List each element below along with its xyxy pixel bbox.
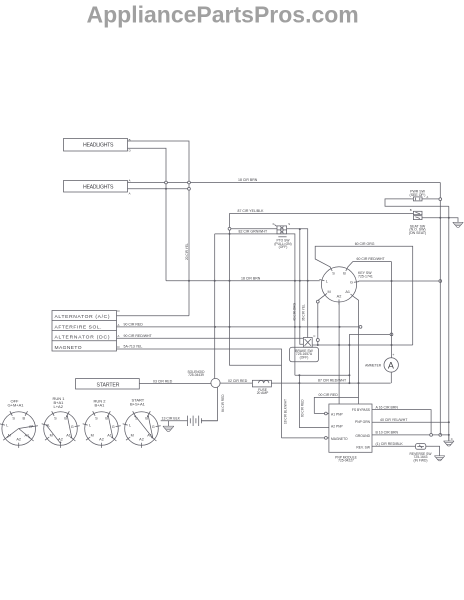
svg-text:C: C [313, 334, 315, 338]
wire headlight2 bottom [128, 188, 190, 190]
svg-text:725-04439: 725-04439 [188, 373, 204, 377]
wire reverse switch to ground [426, 446, 440, 456]
svg-text:L: L [48, 424, 50, 428]
battery [187, 416, 189, 426]
svg-text:A1: A1 [66, 433, 71, 437]
wire 60 CIR RED/WHT key B terminal to ammeter branch [348, 262, 392, 267]
wire brake bypass loop [295, 374, 350, 376]
svg-text:C: C [451, 437, 453, 441]
ground right of module [448, 435, 450, 441]
wire 02 CIR RED solenoid to fuse [220, 382, 253, 384]
svg-text:40 CIR YEL/WHT: 40 CIR YEL/WHT [380, 418, 408, 422]
svg-text:A: A [118, 334, 120, 338]
svg-text:S: S [332, 272, 335, 276]
wire PTO right to brake top [287, 229, 308, 338]
wire 60 CIR RED vertical to module A2 [299, 375, 329, 427]
wire ammeter bottom [390, 372, 392, 383]
svg-text:A: A [427, 195, 429, 199]
wire key M terminal to brake switch [318, 296, 323, 300]
svg-text:HEADLIGHTS: HEADLIGHTS [83, 142, 114, 148]
svg-text:18 CIR BRN: 18 CIR BRN [238, 178, 258, 182]
engine component stack box [52, 311, 117, 352]
module magneto terminal [325, 437, 328, 440]
headlight 2 box [64, 181, 128, 193]
wire key A2 terminal down to module top [338, 302, 340, 404]
solenoid circle [211, 378, 220, 387]
wire 40 CIR YEL/WHT module PNP GRN [372, 421, 449, 423]
svg-text:A: A [129, 179, 131, 183]
svg-text:MAGNETO: MAGNETO [55, 345, 82, 351]
wire key A1 terminal down to 87 red/wht [354, 297, 358, 397]
wire headlight1 B to vertical x189 [128, 141, 190, 316]
svg-text:725-04227: 725-04227 [338, 459, 354, 463]
svg-text:725-1741: 725-1741 [358, 275, 373, 279]
svg-text:G+M+A1: G+M+A1 [8, 402, 25, 407]
starter box [76, 379, 140, 389]
svg-text:(OFF): (OFF) [300, 356, 309, 360]
svg-text:AFTERFIRE SOL.: AFTERFIRE SOL. [55, 324, 102, 330]
PNP module box [329, 404, 372, 452]
svg-text:60 CIR ORG: 60 CIR ORG [355, 242, 375, 246]
svg-text:36 CIR YEL: 36 CIR YEL [301, 304, 305, 321]
svg-text:A2: A2 [139, 438, 144, 442]
svg-text:B: B [343, 272, 346, 276]
svg-text:G: G [350, 281, 353, 285]
wire 16 CIR BRN module FS bypass [372, 410, 431, 435]
reverse switch [416, 444, 426, 450]
svg-text:PNP GRN: PNP GRN [355, 420, 371, 424]
svg-text:D: D [118, 345, 120, 349]
wire headlight1 D to vertical x166 [128, 148, 167, 280]
svg-text:REV. SW: REV. SW [356, 445, 371, 449]
svg-text:M: M [328, 290, 331, 294]
svg-text:AppliancePartsPros.com: AppliancePartsPros.com [87, 2, 359, 28]
PTO switch [277, 226, 287, 234]
svg-text:60 CIR RED: 60 CIR RED [301, 399, 305, 417]
svg-text:M: M [91, 434, 94, 438]
svg-text:5A-713 YEL: 5A-713 YEL [124, 345, 143, 349]
wire REV SW module [372, 445, 416, 447]
svg-text:00 CIR RED: 00 CIR RED [319, 393, 339, 397]
svg-text:A2 PNP: A2 PNP [331, 425, 344, 429]
svg-text:87 CIR RED/WHT: 87 CIR RED/WHT [318, 379, 347, 383]
wire lower kill run under PTO [215, 234, 295, 375]
svg-text:(1) CIR RED/BLK: (1) CIR RED/BLK [376, 442, 404, 446]
junction dot x166 brn wire [188, 280, 190, 282]
wire seat switch lower to ground [422, 218, 458, 223]
wire interlock rail y345 [312, 344, 413, 346]
svg-text:A2: A2 [337, 294, 342, 298]
82 CIR GRN/WHT wire with connector bullet [228, 227, 231, 230]
svg-text:87 CIR YEL/BLK: 87 CIR YEL/BLK [238, 209, 265, 213]
svg-text:A: A [118, 323, 120, 327]
svg-text:B+S+A1: B+S+A1 [130, 401, 146, 406]
wire key G terminal to right ground bus [359, 280, 441, 282]
ground battery [167, 421, 169, 426]
svg-text:02 CIR RED: 02 CIR RED [228, 379, 248, 383]
wire 36 CIR YEL vertical [300, 229, 304, 344]
module A1 terminal [325, 412, 328, 415]
wire 87 CIR YEL/BLK to seat switch [230, 212, 414, 214]
wire 03 CIR RED starter to solenoid [139, 383, 211, 385]
svg-text:03 CIR RED: 03 CIR RED [153, 379, 173, 383]
wire 13 CIR BLK battery negative [161, 420, 188, 422]
svg-text:L: L [326, 280, 328, 284]
wire 18 CIR BRN to key L terminal [166, 280, 320, 282]
svg-text:L+A2: L+A2 [54, 404, 64, 409]
svg-text:+: + [392, 353, 394, 357]
svg-text:60 CIR RED/WHT: 60 CIR RED/WHT [357, 257, 386, 261]
svg-text:L: L [89, 424, 91, 428]
wire vertical x349 [348, 334, 350, 383]
wire 10 CIR BRN module ground [372, 434, 449, 436]
svg-text:(IN FWD): (IN FWD) [414, 458, 428, 462]
wire ammeter top [391, 262, 393, 358]
svg-text:90 CIR RED: 90 CIR RED [124, 323, 144, 327]
connector circles on headlight wires [165, 181, 168, 184]
svg-text:F: F [273, 222, 275, 226]
svg-text:A: A [388, 360, 394, 370]
svg-text:A1: A1 [107, 433, 112, 437]
svg-text:(SEE OP.): (SEE OP.) [410, 193, 426, 197]
svg-text:18 CIR BRN: 18 CIR BRN [241, 276, 261, 280]
wire 60 CIR ORG key S terminal loop [315, 246, 413, 345]
wire alternator AC 20 CIR YEL [117, 315, 190, 317]
svg-text:M: M [50, 434, 53, 438]
svg-text:HEADLIGHTS: HEADLIGHTS [83, 185, 114, 191]
wire solenoid top riser [214, 234, 216, 379]
wire solenoid bottom to battery [201, 387, 217, 421]
wire magneto 5A-713 YEL [117, 349, 282, 438]
svg-text:S: S [95, 417, 98, 421]
svg-text:FS BYPASS: FS BYPASS [352, 408, 371, 412]
key switch circle [321, 267, 356, 302]
wire 87 CIR RED/WHT fuse to ammeter [271, 382, 390, 384]
svg-text:A2: A2 [99, 438, 104, 442]
svg-text:(OFF): (OFF) [279, 245, 288, 249]
svg-text:20 AMP: 20 AMP [257, 391, 269, 395]
brake switch [303, 338, 312, 348]
svg-text:S: S [288, 222, 290, 226]
ammeter circle [384, 358, 398, 372]
svg-text:A1 PNP: A1 PNP [331, 413, 344, 417]
wire PWR switch to bus [426, 198, 439, 200]
svg-text:AMMETER: AMMETER [365, 363, 382, 367]
svg-text:B+A1: B+A1 [95, 402, 106, 407]
wire alternator DC 90 CIR RED/WHT [117, 337, 304, 339]
svg-text:G: G [71, 425, 74, 429]
svg-text:A 16 CIR BRN: A 16 CIR BRN [376, 405, 399, 409]
svg-text:MAGNETO: MAGNETO [331, 437, 348, 441]
ground bus vertical right x440 [439, 183, 441, 435]
svg-text:B 10 CIR BRN: B 10 CIR BRN [376, 431, 399, 435]
svg-text:18 CIR BLK/WHT: 18 CIR BLK/WHT [284, 399, 288, 424]
headlight 1 box [64, 139, 128, 152]
svg-text:STARTER: STARTER [97, 382, 120, 388]
svg-text:ALTERNATOR (DC): ALTERNATOR (DC) [55, 335, 110, 341]
svg-text:40 CIR ORG: 40 CIR ORG [293, 302, 297, 321]
svg-text:B: B [23, 417, 26, 421]
svg-text:A2: A2 [16, 438, 21, 442]
svg-text:90 CIR RED/WHT: 90 CIR RED/WHT [124, 334, 153, 338]
svg-text:D: D [129, 148, 131, 152]
wire 00 CIR RED [314, 397, 358, 413]
svg-text:B: B [410, 208, 412, 212]
wire 18 CIR BRN headlight2 top to right side [128, 182, 441, 184]
svg-text:13 CIR BLK: 13 CIR BLK [162, 417, 181, 421]
svg-text:84 CIR RED: 84 CIR RED [221, 394, 225, 412]
fuse 20 AMP [252, 380, 271, 387]
svg-text:A: A [129, 191, 131, 195]
svg-text:S: S [54, 417, 57, 421]
svg-text:GROUND: GROUND [355, 434, 370, 438]
svg-text:L: L [6, 424, 8, 428]
svg-text:G: G [152, 425, 155, 429]
svg-text:A1: A1 [345, 290, 350, 294]
svg-text:ALTERNATOR (A/C): ALTERNATOR (A/C) [55, 314, 110, 320]
svg-text:L: L [129, 424, 131, 428]
wire vertical x229 kill circuit [229, 213, 231, 227]
svg-text:G: G [112, 425, 115, 429]
PWR switch bypass loop [385, 199, 449, 206]
wire stub to ammeter stem [349, 333, 391, 335]
svg-text:82 CIR GRN/WHT: 82 CIR GRN/WHT [239, 230, 268, 234]
svg-text:D: D [118, 309, 120, 313]
svg-text:M: M [131, 434, 134, 438]
svg-text:(ON SEAT): (ON SEAT) [409, 231, 426, 235]
svg-text:20 CIR YEL: 20 CIR YEL [185, 243, 189, 260]
seat switch vertical x448.8 [448, 206, 450, 441]
wire afterfire sol 90 CIR RED [117, 326, 361, 328]
